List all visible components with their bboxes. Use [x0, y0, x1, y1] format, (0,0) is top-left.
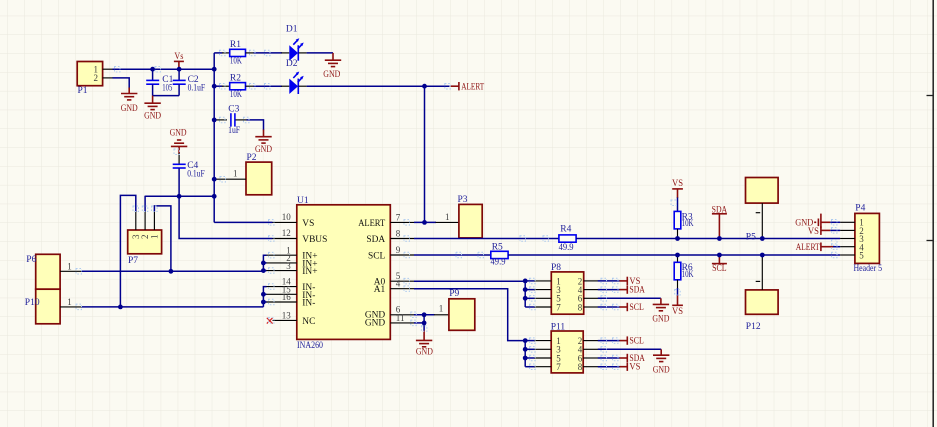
ground right of C3	[255, 130, 272, 156]
pin U1.12 VBUS	[273, 238, 297, 240]
wire P7.3 to P10 net	[120, 195, 135, 307]
svg-text:P2: P2	[247, 153, 257, 163]
svg-text:P9: P9	[449, 289, 459, 299]
svg-text:SCL: SCL	[629, 337, 644, 347]
junction IN+ pin3	[261, 268, 266, 273]
junction IN+ pin2	[261, 261, 266, 266]
svg-text:7: 7	[556, 302, 561, 312]
svg-text:1: 1	[439, 303, 444, 313]
svg-text:SCL: SCL	[368, 252, 385, 262]
junction P11 row2	[523, 347, 528, 352]
pin P8.1	[525, 280, 535, 282]
junction P11 row3	[523, 356, 528, 361]
wire ALERT vertical down to U1 pin7 row	[424, 86, 426, 222]
svg-text:R4: R4	[560, 225, 571, 235]
connector P12	[746, 290, 779, 332]
pin U1.1 IN+	[266, 254, 297, 256]
svg-text:P12: P12	[746, 322, 761, 332]
pin P9.1	[434, 314, 449, 316]
wire P8 left vertical	[524, 281, 526, 307]
resistor R6	[674, 255, 693, 289]
sheet border right edge	[927, 0, 934, 427]
wire R2 to D2	[254, 85, 283, 87]
junction GND pin6	[422, 312, 427, 317]
wire R5 to P4.5	[508, 254, 840, 256]
pin U1.7 ALERT	[390, 221, 414, 223]
svg-text:VS: VS	[808, 227, 819, 237]
pin P7.1	[153, 211, 155, 230]
svg-text:5: 5	[859, 251, 864, 261]
pin U1.4 A1	[390, 288, 414, 290]
op-amp-ic U1 INA260 body	[297, 196, 391, 351]
net label ALERT	[451, 82, 485, 92]
svg-text:GND: GND	[652, 314, 669, 324]
wire P7.2 up to C4 junction	[144, 196, 146, 212]
resistor R1	[222, 40, 254, 67]
pin P10.1	[60, 306, 82, 308]
pin U1.8 SDA	[390, 238, 414, 240]
svg-text:VS: VS	[302, 219, 314, 229]
wire P10 to IN-	[82, 306, 264, 308]
connector P3	[458, 195, 483, 238]
svg-text:SCL: SCL	[629, 303, 644, 313]
svg-text:8: 8	[578, 362, 583, 372]
power port VS above R3	[672, 179, 683, 198]
pin P11.6 to SDA label	[583, 357, 598, 359]
pin U1.10 VS	[273, 221, 297, 223]
wire U1.6 to P9	[414, 314, 435, 316]
wire SCL to R5	[414, 254, 491, 256]
pin P1.1	[103, 68, 113, 70]
wire R4 to P4.3	[576, 238, 840, 240]
svg-text:R5: R5	[492, 242, 503, 252]
wire IN- vertical	[263, 287, 266, 307]
ground at P8.6	[652, 298, 669, 324]
pin P8.2 to VS label	[584, 280, 598, 282]
pin P7.3	[135, 211, 137, 230]
svg-text:105: 105	[162, 83, 172, 93]
svg-text:IN+: IN+	[302, 267, 317, 277]
junction ALERT vertical / pin7 wire	[422, 220, 427, 225]
svg-text:ALERT: ALERT	[358, 219, 385, 229]
svg-text:7: 7	[556, 362, 561, 372]
pin D1 anode	[281, 52, 289, 54]
svg-text:VS: VS	[629, 363, 640, 373]
svg-text:ALERT: ALERT	[796, 243, 820, 253]
connector P6	[26, 254, 60, 289]
svg-text:49.9: 49.9	[491, 257, 506, 267]
wire VBUS down and right to U1 pin 12	[179, 196, 272, 238]
pin D2 cathode	[299, 85, 307, 87]
main Vs vertical bus	[213, 53, 215, 223]
junction Vs / C2	[177, 67, 182, 72]
no-connect cross U1.13	[267, 318, 273, 324]
ground at P11.4	[653, 349, 670, 375]
pin P11.3	[525, 348, 535, 350]
ground below P1	[121, 88, 138, 114]
connector P9	[449, 289, 475, 330]
pin P4.5 SCL	[840, 254, 855, 256]
connector P7	[128, 230, 162, 266]
svg-text:D1: D1	[286, 25, 298, 35]
junction bus / C3	[212, 118, 217, 123]
wire P1.2 to ground	[113, 78, 130, 89]
pin U1.15 IN-	[266, 293, 297, 295]
svg-text:NC: NC	[302, 317, 315, 327]
pin U1.14 IN-	[266, 286, 297, 288]
svg-text:P5: P5	[746, 232, 756, 242]
LED D2	[286, 59, 304, 94]
ground above C4 (inverted)	[170, 129, 188, 154]
pin U1.5 A0	[390, 280, 414, 282]
connector P1	[77, 62, 102, 97]
svg-text:1: 1	[67, 261, 72, 271]
pin P8.5	[525, 297, 535, 299]
svg-text:9: 9	[396, 245, 401, 255]
pin P8.8 to SCL label	[584, 306, 598, 308]
wire IN+ vertical	[263, 255, 266, 271]
pin U1.2 IN+	[266, 262, 297, 264]
pin P4.3 SDA	[840, 238, 855, 240]
svg-text:GND: GND	[323, 70, 340, 80]
pin P11.2 to SCL label	[583, 340, 598, 342]
svg-text:SDA: SDA	[629, 285, 645, 295]
junction P12 / SCL	[760, 253, 765, 258]
pin U1.9 SCL	[390, 254, 414, 256]
svg-text:13: 13	[282, 311, 292, 321]
pin P4.4 with ALERT port	[840, 246, 855, 248]
svg-text:P6: P6	[26, 255, 36, 265]
wire A1 to P11	[414, 289, 525, 341]
pin P11.5	[525, 357, 535, 359]
wire U1.11 to ground	[414, 322, 424, 324]
svg-text:4: 4	[396, 279, 401, 289]
svg-text:12: 12	[282, 228, 291, 238]
wire P7.1 to P6 net	[154, 206, 171, 271]
svg-text:P3: P3	[458, 195, 468, 205]
svg-text:D2: D2	[286, 59, 298, 69]
svg-text:Header 5: Header 5	[854, 264, 883, 274]
wire bus to U1.10	[214, 221, 272, 223]
svg-text:0.1uF: 0.1uF	[188, 83, 206, 93]
junction R3 / SDA	[675, 236, 680, 241]
svg-text:10K: 10K	[682, 219, 694, 229]
svg-text:GND: GND	[416, 348, 433, 358]
junction IN- pin16	[261, 300, 266, 305]
pin P11.7	[525, 366, 535, 368]
resistor R3	[674, 198, 693, 239]
wire bus to R2	[214, 85, 222, 87]
svg-text:P10: P10	[25, 298, 40, 308]
junction P1 wire / C1	[150, 67, 155, 72]
svg-text:3: 3	[286, 261, 291, 271]
pin P5.1	[761, 203, 763, 238]
pin P4.1 with GND port	[840, 221, 855, 223]
junction P8 row2	[523, 287, 528, 292]
svg-text:8: 8	[396, 228, 401, 238]
junction IN- pin15	[261, 292, 266, 297]
svg-text:SDA: SDA	[366, 235, 385, 245]
svg-text:VS: VS	[672, 179, 683, 189]
junction P8 row1	[523, 279, 528, 284]
wire C1-C2 bottoms	[153, 95, 180, 97]
wire A0 to P8	[414, 280, 525, 282]
power port VS below R6 (inverted)	[672, 288, 683, 317]
power port SDA	[712, 206, 728, 239]
svg-text:10K: 10K	[230, 90, 242, 100]
pin U1.3 IN+	[266, 270, 297, 272]
pin P11.8 to VS label	[583, 366, 598, 368]
junction SDA port	[717, 236, 722, 241]
junction P8 row3	[523, 296, 528, 301]
pin P7.2	[144, 211, 146, 230]
svg-text:8: 8	[578, 302, 583, 312]
wire P6 to IN+	[82, 270, 264, 272]
svg-text:GND: GND	[121, 104, 138, 114]
svg-text:P4: P4	[855, 204, 865, 214]
junction P11 row1	[523, 338, 528, 343]
connector P10	[25, 289, 60, 324]
resistor R4	[559, 225, 577, 254]
wire D1 to ground	[307, 52, 333, 54]
svg-text:1: 1	[233, 169, 238, 179]
wire SDA to R4	[414, 238, 559, 240]
pin U1.6 GND	[390, 314, 414, 316]
pin P11.4 to ground	[583, 348, 598, 350]
svg-text:INA260: INA260	[297, 341, 323, 351]
svg-text:10K: 10K	[230, 57, 242, 67]
svg-text:GND: GND	[365, 318, 386, 328]
connector P11	[551, 323, 584, 373]
wire D2 to ALERT net	[307, 85, 450, 87]
wire R1 to D1	[254, 52, 283, 54]
pin P1.2	[103, 77, 113, 79]
pin P8.7	[525, 306, 535, 308]
wire C3 to ground	[247, 120, 264, 130]
connector P5	[746, 178, 779, 243]
svg-text:GND: GND	[170, 129, 187, 139]
svg-text:1: 1	[149, 235, 159, 240]
svg-text:GND: GND	[653, 365, 670, 375]
capacitor C2	[173, 69, 205, 95]
svg-text:ALERT: ALERT	[461, 82, 484, 92]
svg-text:IN-: IN-	[302, 299, 315, 309]
svg-text:49.9: 49.9	[559, 243, 574, 253]
junction ALERT vertical	[422, 84, 427, 89]
pin D1 cathode	[299, 52, 307, 54]
svg-text:C3: C3	[228, 104, 239, 114]
svg-text:A1: A1	[374, 285, 386, 295]
svg-text:GND: GND	[255, 145, 272, 155]
junction C4 / P7.2 / bus / VBUS	[177, 194, 182, 199]
junction P7.1 / P6 wire	[169, 269, 174, 274]
pin P3.1	[436, 221, 459, 223]
svg-text:1uF: 1uF	[228, 126, 240, 136]
wire U1.7 to P3	[414, 221, 436, 223]
connector P2	[233, 153, 272, 195]
wire bus to R1	[214, 52, 222, 54]
svg-text:SCL: SCL	[712, 264, 727, 274]
power port Vs	[174, 52, 184, 69]
wire C4 to VBUS net junction	[178, 168, 180, 196]
junction P7.3 / P10 wire	[118, 305, 123, 310]
junction SCL port	[717, 253, 722, 258]
junction P5 / SDA	[760, 236, 765, 241]
svg-text:Vs: Vs	[174, 52, 183, 62]
LED D1	[286, 25, 304, 61]
junction bus / P2	[212, 177, 217, 182]
junction R6 / SCL	[675, 253, 680, 258]
svg-text:P8: P8	[551, 263, 561, 273]
junction GND pin11	[422, 321, 427, 326]
svg-text:10K: 10K	[682, 270, 694, 280]
pin P4.2 with VS port	[840, 229, 855, 231]
junction bus / P1 wire	[212, 67, 217, 72]
svg-text:11: 11	[396, 313, 405, 323]
svg-text:VS: VS	[672, 307, 683, 317]
power port SCL (inverted)	[712, 255, 727, 274]
pin D2 anode	[281, 85, 289, 87]
ground below C1	[144, 96, 161, 122]
pin P12.1	[761, 255, 763, 290]
pin P8.6 to ground	[584, 297, 598, 299]
svg-text:2: 2	[94, 73, 99, 83]
connector P4 Header 5	[854, 204, 883, 274]
resistor R2	[222, 73, 254, 100]
off-grid connection markers	[76, 50, 837, 369]
pin U1.16 IN-	[266, 301, 297, 303]
pin P2.1	[214, 178, 246, 180]
pin P8.3	[525, 289, 535, 291]
svg-text:0.1uF: 0.1uF	[187, 170, 205, 180]
ground below U1	[416, 331, 433, 358]
wire P1.1 to Vs bus	[113, 68, 215, 70]
svg-text:16: 16	[282, 292, 292, 302]
pin U1.11 GND	[390, 322, 414, 324]
svg-text:VBUS: VBUS	[302, 235, 327, 245]
svg-text:R1: R1	[230, 40, 241, 50]
capacitor C3	[214, 104, 246, 135]
resistor R5	[491, 242, 509, 267]
capacitor C1	[146, 69, 173, 95]
svg-text:P1: P1	[78, 86, 88, 96]
svg-text:P7: P7	[128, 256, 138, 266]
wire GND vertical	[423, 315, 425, 332]
svg-text:1: 1	[445, 212, 450, 222]
svg-text:R2: R2	[230, 73, 241, 83]
pin P6.1	[60, 270, 82, 272]
svg-text:P11: P11	[551, 323, 566, 333]
wire P11 left vertical	[524, 341, 526, 367]
svg-text:GND: GND	[144, 112, 161, 122]
wire junction to bus	[145, 195, 214, 197]
svg-text:7: 7	[396, 212, 401, 222]
junction bus / R2	[212, 84, 217, 89]
pin P8.4 to SDA label	[584, 289, 598, 291]
capacitor C4	[173, 153, 205, 180]
junction bus / C4 net	[212, 194, 217, 199]
ground right of D1	[323, 53, 341, 80]
pin U1.13 NC	[273, 319, 297, 321]
svg-text:U1: U1	[297, 196, 309, 206]
svg-text:10: 10	[282, 212, 292, 222]
pin P11.1	[525, 340, 535, 342]
connector P8	[551, 263, 584, 314]
svg-text:1: 1	[67, 297, 72, 307]
